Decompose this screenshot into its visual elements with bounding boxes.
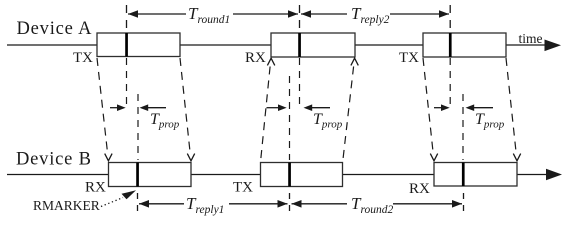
label T_prop (message 2) bbox=[313, 111, 343, 131]
T_prop arrows (message 3) bbox=[434, 104, 493, 111]
device A label bbox=[17, 19, 93, 39]
message 3 right dashed path (A3 right edge to B3 right edge) bbox=[506, 58, 521, 161]
marker B3 (RX RMARKER line) bbox=[462, 163, 465, 187]
message 2 left dashed path (B2 left edge to A2 left edge) bbox=[261, 58, 275, 160]
dashed drop line below marker A1 bbox=[126, 58, 128, 104]
box A2: Device A RX frame bbox=[271, 33, 355, 57]
device B label bbox=[16, 150, 92, 170]
svg-text:RX: RX bbox=[245, 50, 266, 66]
T_prop arrows (message 2) bbox=[267, 104, 331, 111]
dashed reference bar at marker A3 (top row) bbox=[449, 5, 451, 28]
marker A1 (TX RMARKER line) bbox=[125, 33, 128, 57]
dashed reference bar at marker A2 (top row) bbox=[299, 5, 301, 28]
box A3: Device A TX frame bbox=[423, 33, 506, 57]
T_round1 dimension arrow bbox=[128, 10, 298, 18]
message 1 left dashed path (A1 left edge to B1 left edge) bbox=[97, 58, 112, 161]
label TX (B2) bbox=[233, 180, 253, 196]
marker B2 (TX RMARKER line) bbox=[288, 163, 291, 187]
box B2: Device B TX frame bbox=[261, 163, 343, 187]
dashed drop line below marker A3 bbox=[449, 58, 451, 107]
message 1 right dashed path (A1 right edge to B1 right edge) bbox=[180, 58, 195, 161]
dashed reference bar at marker B3 (bottom row) bbox=[463, 193, 465, 213]
dashed drop line below marker A2 bbox=[299, 58, 301, 108]
box B3: Device B RX frame bbox=[434, 163, 517, 187]
label T_prop (message 3) bbox=[475, 111, 505, 131]
svg-text:time: time bbox=[519, 31, 543, 46]
label T_round2 bbox=[351, 194, 394, 216]
label TX (A1) bbox=[73, 50, 93, 66]
dashed rise line above marker B2 bbox=[289, 76, 291, 160]
message 3 left dashed path (A3 left edge to B3 left edge) bbox=[423, 58, 438, 161]
svg-text:RX: RX bbox=[85, 180, 106, 196]
timeline A (time axis of Device A) bbox=[7, 40, 561, 52]
T_reply2 dimension arrow bbox=[301, 10, 449, 18]
dashed reference bar at marker B2 (bottom row) bbox=[289, 193, 291, 213]
label RMARKER bbox=[33, 198, 100, 213]
svg-text:RX: RX bbox=[409, 181, 430, 197]
dashed rise line above marker B3 bbox=[462, 94, 464, 160]
message 2 right dashed path (B2 right edge to A2 right edge) bbox=[343, 58, 358, 160]
label TX (A3) bbox=[399, 50, 419, 66]
svg-text:Device B: Device B bbox=[16, 150, 92, 170]
label T_round1 bbox=[188, 4, 230, 26]
marker B1 (RX RMARKER line) bbox=[136, 163, 139, 187]
T_prop arrows (message 1) bbox=[110, 104, 166, 111]
svg-text:TX: TX bbox=[399, 50, 419, 66]
label RX (B3) bbox=[409, 181, 430, 197]
dashed reference bar at marker B1 (bottom row) bbox=[137, 193, 139, 213]
label T_prop (message 1) bbox=[150, 111, 180, 131]
T_round2 dimension arrow bbox=[292, 200, 463, 208]
label RX (A2) bbox=[245, 50, 266, 66]
dashed reference bar at marker A1 (top row) bbox=[126, 5, 128, 28]
time axis label bbox=[519, 31, 543, 46]
label T_reply2 bbox=[351, 4, 390, 26]
label RX (B1) bbox=[85, 180, 106, 196]
box A1: Device A TX frame bbox=[97, 33, 180, 57]
box B1: Device B RX frame bbox=[109, 163, 192, 187]
dashed rise line above marker B1 bbox=[137, 94, 139, 160]
svg-text:TX: TX bbox=[73, 50, 93, 66]
svg-text:RMARKER: RMARKER bbox=[33, 198, 100, 213]
svg-text:Device A: Device A bbox=[17, 19, 93, 39]
label T_reply1 bbox=[186, 194, 224, 216]
svg-text:TX: TX bbox=[233, 180, 253, 196]
timeline B (time axis of Device B) bbox=[7, 169, 562, 181]
RMARKER pointer (dotted leader with arrowhead to marker B1) bbox=[101, 190, 136, 206]
marker A2 (RX RMARKER line) bbox=[298, 33, 301, 57]
marker A3 (TX RMARKER line) bbox=[449, 33, 452, 57]
T_reply1 dimension arrow bbox=[139, 200, 288, 208]
